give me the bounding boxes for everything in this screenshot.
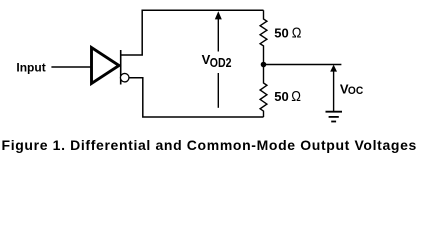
wire input to driver [51, 66, 91, 68]
svg-text:OC: OC [348, 85, 363, 97]
ground bar 1 [326, 111, 343, 113]
inverting output bubble [120, 73, 129, 82]
wire noninverting output to top [121, 10, 264, 55]
VOD2 arrow upper shaft [217, 18, 219, 52]
resistor R2 [260, 65, 267, 118]
driver U1 triangle [92, 48, 120, 84]
svg-text:50: 50 [274, 89, 288, 104]
driver U1 output bar [120, 50, 122, 85]
node junction between resistors [261, 62, 267, 68]
svg-text:Input: Input [16, 61, 45, 75]
ground bar 2 [329, 116, 339, 118]
wire inverting output to bottom [129, 78, 264, 117]
VOD2 arrow lower shaft [217, 73, 219, 108]
svg-text:Figure 1. Differential and Com: Figure 1. Differential and Common-Mode O… [2, 137, 417, 153]
ground bar 3 [331, 121, 336, 123]
resistor R1 [260, 10, 267, 64]
svg-text:50: 50 [274, 25, 288, 40]
svg-text:Ω: Ω [292, 24, 302, 41]
wire junction to VOC arrow [264, 64, 342, 66]
svg-text:OD2: OD2 [210, 55, 232, 70]
svg-text:Ω: Ω [291, 88, 301, 105]
VOC arrow head [330, 65, 337, 72]
VOD2 arrow head [215, 11, 222, 19]
VOC arrow shaft [333, 71, 335, 112]
